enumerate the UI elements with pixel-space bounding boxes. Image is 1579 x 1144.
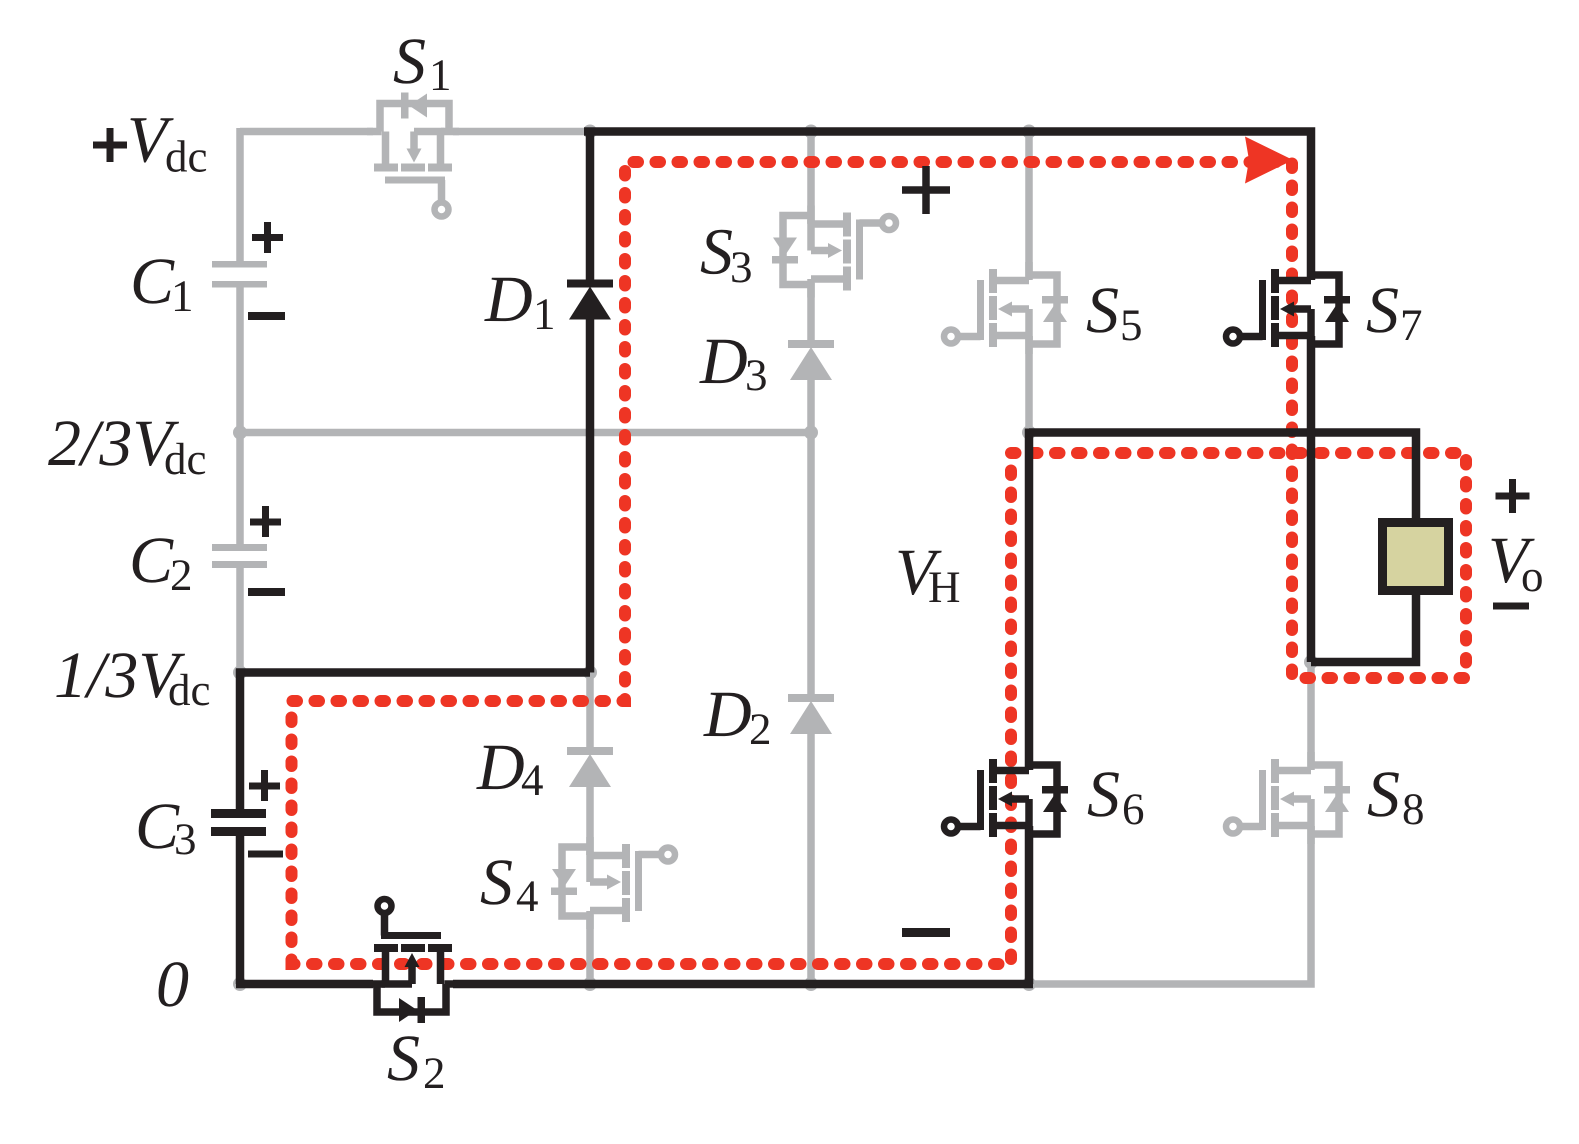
- svg-text:5: 5: [1120, 300, 1143, 350]
- diode D2: [788, 694, 834, 734]
- svg-text:3: 3: [745, 350, 768, 400]
- wire S8 column to 0 rail with corner: [1033, 826, 1311, 984]
- sign minus Vo: [1493, 603, 1529, 610]
- wire S5 column: S5 to VH+ corner: [1025, 336, 1033, 433]
- load resistor box: [1383, 523, 1449, 591]
- wire S8 column: load bottom to S8: [1307, 662, 1315, 770]
- transistor S3: [772, 206, 896, 298]
- svg-text:1/3V: 1/3V: [54, 639, 185, 712]
- svg-text:D: D: [703, 678, 752, 751]
- svg-text:1: 1: [429, 50, 452, 100]
- transistor S8: [1226, 752, 1350, 844]
- wire S6 column: VH corner to S6: [1025, 429, 1034, 771]
- svg-text:D: D: [699, 325, 748, 398]
- wire left rail C2 to 1/3Vdc: [236, 568, 244, 673]
- node 1/3 rail / D1 column junction: [583, 666, 597, 680]
- wire load bottom loop: [1311, 595, 1416, 662]
- sign plus C2: [250, 506, 281, 537]
- svg-text:D: D: [476, 731, 525, 804]
- node top rail / D1 column junction: [583, 125, 597, 139]
- wire D1 column upper: [586, 132, 595, 281]
- node VH+ corner junction: [1022, 426, 1036, 440]
- svg-text:4: 4: [521, 755, 544, 805]
- capacitor C3: [211, 809, 266, 836]
- wire S3 column: top rail to S3: [807, 132, 815, 225]
- wire S7 column: S7 to load bottom: [1307, 336, 1316, 662]
- svg-text:S: S: [1086, 274, 1119, 347]
- sign minus C3: [248, 851, 283, 858]
- node 2/3 rail / D3 column junction: [804, 426, 818, 440]
- wire 2/3Vdc rail: [240, 429, 811, 437]
- diode D1: [567, 280, 613, 320]
- svg-text:2: 2: [749, 704, 772, 754]
- sign plus VH: [902, 166, 950, 214]
- svg-text:dc: dc: [168, 665, 210, 715]
- node top rail / S5 column junction: [1022, 125, 1036, 139]
- sign plus Vo: [1496, 479, 1530, 513]
- wire S3 column: D2 to 0 rail: [807, 734, 815, 984]
- svg-text:4: 4: [516, 871, 539, 921]
- svg-text:6: 6: [1122, 784, 1145, 834]
- wire top rail gray right segment: [453, 128, 588, 136]
- wire top rail gray left segment: [240, 128, 373, 136]
- wire 1/3Vdc rail: [236, 668, 590, 677]
- capacitor C2: [212, 544, 267, 568]
- svg-text:H: H: [928, 562, 961, 612]
- node 0 rail / S4 column junction: [583, 977, 597, 991]
- svg-text:S: S: [700, 216, 733, 289]
- wire D1 column lower: [586, 318, 595, 673]
- transistor S7: [1226, 262, 1350, 354]
- wire left rail C3 to 0: [236, 836, 245, 984]
- sign minus C1: [248, 312, 285, 320]
- wire S4 column: S4 to 0 rail: [586, 911, 594, 984]
- svg-text:1: 1: [171, 271, 194, 321]
- wire S6 column: S6 to 0 rail: [1025, 826, 1034, 984]
- svg-text:S: S: [387, 1022, 420, 1095]
- sign plus C1: [252, 222, 283, 253]
- wire S5 column: top rail to S5: [1025, 132, 1033, 281]
- svg-text:S: S: [480, 846, 513, 919]
- sign minus C2: [248, 588, 285, 596]
- wire 0 rail right of S2: [453, 980, 1033, 989]
- wire S4 column: D4 to S4: [586, 787, 594, 855]
- svg-text:S: S: [1087, 758, 1120, 831]
- wire left rail C1 to C2: [236, 287, 244, 544]
- svg-text:2/3V: 2/3V: [48, 407, 179, 480]
- transistor S1: [367, 93, 459, 217]
- node 0 left corner: [233, 977, 247, 991]
- wire S3 column: S3 to D3: [807, 279, 815, 340]
- node 1/3Vdc junction: [233, 666, 247, 680]
- red arrow head: [1245, 137, 1293, 184]
- capacitor C1: [212, 261, 267, 288]
- svg-text:2: 2: [423, 1048, 446, 1098]
- svg-text:S: S: [1367, 758, 1400, 831]
- sign minus VH: [902, 928, 950, 937]
- wire VH+ rail to load with corner: [1029, 433, 1416, 519]
- svg-text:0: 0: [156, 948, 189, 1021]
- node 0 rail / S6 column junction: [1022, 977, 1036, 991]
- svg-text:3: 3: [174, 814, 197, 864]
- svg-text:o: o: [1521, 551, 1544, 601]
- wire left rail 1/3Vdc to C3: [236, 669, 245, 810]
- wire S4 column: 1/3 rail to D4: [586, 674, 594, 747]
- svg-text:S: S: [1366, 274, 1399, 347]
- wire red dashed current loop: [292, 162, 1467, 964]
- node 0 rail / D2 column junction: [804, 977, 818, 991]
- svg-text:C: C: [129, 524, 174, 597]
- node load bottom / S8 column junction: [1304, 655, 1318, 669]
- wire 0 rail left of S2: [236, 980, 373, 989]
- transistor S2: [367, 899, 459, 1023]
- svg-text:1: 1: [533, 289, 556, 339]
- svg-text:3: 3: [730, 242, 753, 292]
- svg-text:8: 8: [1402, 784, 1425, 834]
- svg-text:C: C: [130, 245, 175, 318]
- node 2/3Vdc junction: [233, 426, 247, 440]
- sign plus C3: [249, 770, 280, 801]
- wire S3 column: 2/3 rail to D2: [807, 433, 815, 695]
- svg-text:dc: dc: [165, 132, 207, 182]
- diode D3: [788, 340, 834, 380]
- transistor S5: [944, 262, 1068, 354]
- node top rail / S3 column junction: [804, 125, 818, 139]
- svg-text:2: 2: [170, 550, 193, 600]
- svg-text:D: D: [484, 263, 533, 336]
- svg-text:S: S: [393, 25, 426, 98]
- svg-text:7: 7: [1400, 300, 1423, 350]
- wire left rail +Vdc to C1: [236, 128, 244, 261]
- wire S3 column: D3 to 2/3 rail: [807, 380, 815, 433]
- wire top rail black with right corner down to S7: [584, 132, 1311, 281]
- diode D4: [567, 747, 613, 787]
- svg-text:dc: dc: [164, 434, 206, 484]
- transistor S4: [551, 837, 675, 929]
- transistor S6: [944, 752, 1068, 844]
